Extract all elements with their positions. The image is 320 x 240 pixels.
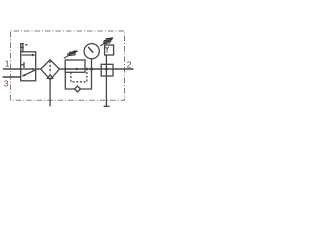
svg-text:3: 3 xyxy=(4,78,9,88)
regulator R1 adjustable spring xyxy=(69,51,78,52)
wire vent valve to distributor xyxy=(105,55,107,64)
enclosure frame (dash-dot service unit boundary) xyxy=(11,31,125,100)
regulator R1 pilot line (dashed) xyxy=(71,70,87,82)
regulator R1 relief path xyxy=(65,72,74,89)
junction node dot xyxy=(105,68,108,71)
on/off valve V1 upper position arrow xyxy=(22,54,33,56)
filter F1 condensate drain line xyxy=(49,80,51,107)
regulator R1 flow arrow xyxy=(65,68,85,70)
wire port 1 xyxy=(3,68,21,70)
svg-text:1: 1 xyxy=(5,58,10,68)
on/off valve V1 manual actuator xyxy=(20,44,22,52)
distributor cross lines xyxy=(101,68,113,70)
svg-text:2: 2 xyxy=(127,59,132,69)
wire port 3 xyxy=(3,76,21,78)
on/off valve V1 body xyxy=(21,52,36,81)
on/off valve V1 through flow line xyxy=(21,68,34,70)
wire regulator to distributor xyxy=(85,68,101,70)
relief valve diamond xyxy=(75,86,81,92)
filter F1 with water separator (diamond) xyxy=(41,60,60,80)
on/off valve V1 blocked port T xyxy=(21,64,24,66)
distributor block D1 xyxy=(101,64,113,76)
pressure gauge G1 xyxy=(84,44,99,59)
wire filter to regulator xyxy=(59,68,65,70)
pressure regulator R1 body xyxy=(65,60,85,72)
wire port 2 xyxy=(113,68,134,70)
on/off valve V1 exhaust diagonal xyxy=(23,70,36,76)
vent valve U1 adjustable spring xyxy=(106,38,114,39)
vent valve U1 seat (Y) xyxy=(106,47,109,49)
drain end plug bar xyxy=(104,105,110,107)
regulator R1 inlet junction dot xyxy=(64,68,67,71)
wire valve to filter xyxy=(36,68,41,70)
distributor drain line xyxy=(105,76,107,106)
gauge riser wire xyxy=(91,59,93,70)
vent valve U1 body xyxy=(105,45,114,55)
